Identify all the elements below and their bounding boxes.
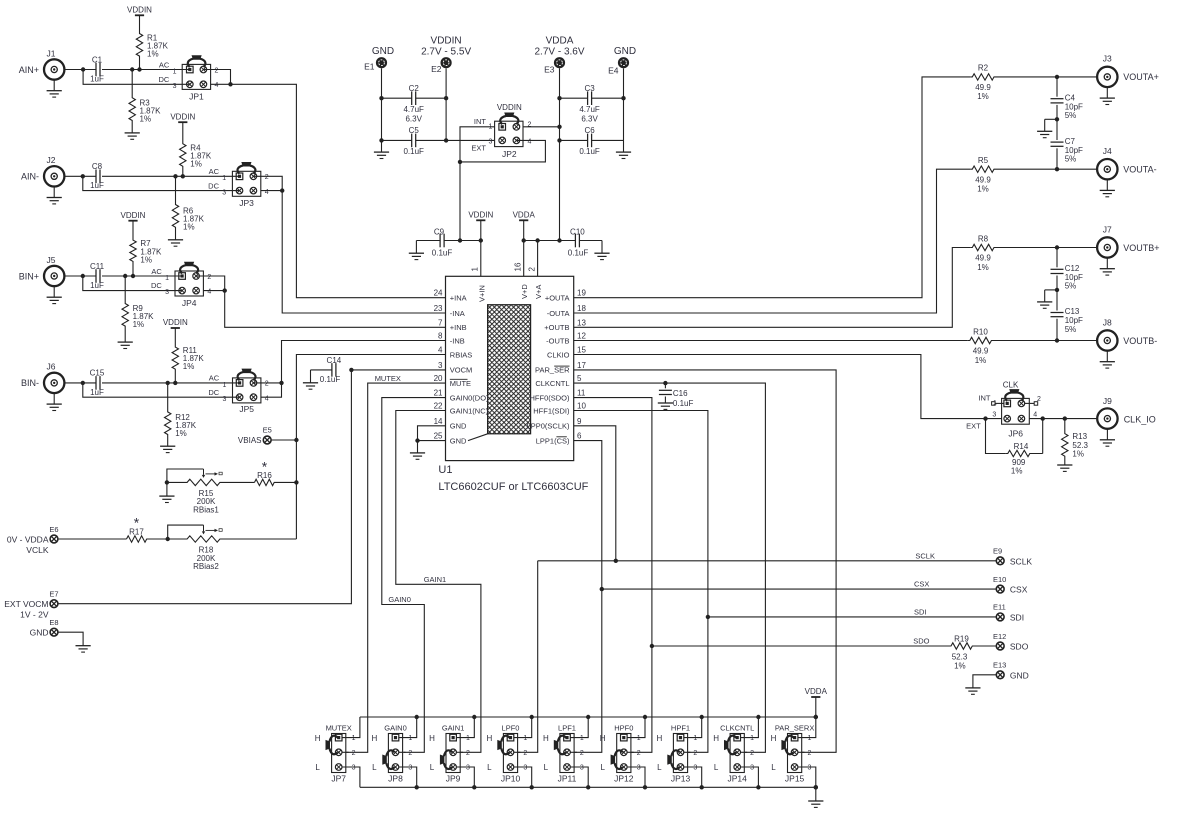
svg-text:2: 2 (215, 67, 219, 74)
svg-text:4.7uF: 4.7uF (403, 105, 424, 114)
jumper JP6 (1002, 398, 1030, 424)
ground (125, 132, 140, 134)
ground (1106, 429, 1108, 440)
svg-text:J6: J6 (47, 362, 56, 372)
svg-text:CLK: CLK (1003, 380, 1019, 389)
svg-text:C4: C4 (1065, 93, 1076, 102)
svg-text:L: L (487, 763, 492, 772)
svg-text:LPF0: LPF0 (502, 723, 520, 732)
svg-text:CSX: CSX (914, 580, 929, 589)
wire (225, 291, 446, 328)
svg-text:GND: GND (372, 46, 394, 57)
svg-text:3: 3 (222, 396, 226, 403)
jumper JP5 (233, 378, 261, 403)
svg-text:EXT: EXT (471, 143, 486, 152)
svg-text:2.7V - 5.5V: 2.7V - 5.5V (421, 47, 471, 58)
wire (1056, 319, 1058, 341)
capacitor C11 (95, 269, 97, 283)
svg-text:VDDA: VDDA (805, 687, 828, 696)
svg-text:1uF: 1uF (90, 281, 104, 290)
wire (518, 561, 538, 753)
wire (652, 645, 949, 647)
svg-text:14: 14 (434, 417, 443, 426)
junction (1055, 75, 1059, 79)
svg-text:1%: 1% (1072, 450, 1084, 459)
svg-text:GAIN1: GAIN1 (442, 723, 465, 732)
svg-text:E13: E13 (993, 661, 1006, 670)
svg-text:25: 25 (434, 432, 443, 441)
wire (416, 97, 446, 99)
wire (460, 127, 495, 241)
resistor R16 (255, 479, 297, 485)
wire RBIAS (296, 355, 445, 540)
wire VOCM (351, 369, 445, 371)
svg-text:2: 2 (265, 381, 269, 388)
terminal E6 VCLK (50, 535, 58, 543)
svg-text:1%: 1% (977, 92, 989, 101)
svg-text:+INB: +INB (450, 323, 467, 332)
svg-text:GAIN0: GAIN0 (384, 723, 407, 732)
junction (130, 67, 134, 71)
svg-text:L: L (430, 763, 435, 772)
wire SDI net (574, 411, 708, 753)
svg-text:2: 2 (408, 750, 412, 757)
ground (168, 239, 183, 241)
wire pin3 to L rail (399, 767, 417, 787)
svg-text:17: 17 (577, 361, 586, 370)
svg-text:JP8: JP8 (388, 774, 403, 784)
svg-text:E10: E10 (993, 575, 1006, 584)
resistor R17 (127, 536, 168, 542)
svg-text:E9: E9 (993, 547, 1002, 556)
svg-text:JP2: JP2 (502, 149, 517, 159)
svg-text:0.1uF: 0.1uF (673, 399, 694, 408)
resistor R8 49.9 (970, 244, 1097, 250)
wire (538, 560, 997, 562)
svg-text:SCLK: SCLK (1010, 556, 1033, 566)
wire +OUTB (574, 248, 971, 328)
svg-text:BIN+: BIN+ (19, 271, 39, 281)
wire (579, 240, 602, 242)
svg-text:C1: C1 (92, 55, 103, 64)
junction (586, 785, 590, 789)
svg-text:H: H (315, 734, 321, 743)
wire (83, 276, 182, 291)
resistor R9 1.87K (122, 276, 128, 342)
wire (1056, 105, 1058, 140)
svg-text:0V - VDDA: 0V - VDDA (7, 534, 49, 544)
resistor R7 1.87K (130, 221, 136, 276)
svg-text:R14: R14 (1014, 442, 1029, 451)
svg-text:19: 19 (577, 289, 586, 298)
svg-text:1: 1 (808, 735, 812, 742)
jumper JP7 MUTEX (332, 734, 346, 773)
wire (83, 70, 190, 85)
resistor R2 49.9 (970, 74, 1097, 80)
power VDDIN (171, 327, 180, 329)
svg-text:1: 1 (637, 735, 641, 742)
ground (616, 151, 631, 153)
svg-text:VCLK: VCLK (26, 545, 49, 555)
capacitor C5 0.1uF (411, 134, 413, 148)
junction (458, 238, 462, 242)
junction (663, 381, 667, 385)
resistor R18 200K RBias2 (168, 536, 297, 542)
ground (815, 787, 817, 801)
svg-text:0.1uF: 0.1uF (568, 249, 589, 258)
svg-text:LPP0(SCLK): LPP0(SCLK) (527, 422, 570, 431)
jumper JP3 (232, 171, 260, 196)
svg-text:4: 4 (265, 189, 269, 196)
svg-text:1: 1 (165, 275, 169, 282)
ground (310, 370, 312, 383)
svg-text:4: 4 (438, 346, 443, 355)
wire (64, 69, 96, 71)
junction (650, 644, 654, 648)
jumper JP2 (495, 121, 523, 146)
wire (1045, 289, 1057, 291)
svg-text:JP4: JP4 (182, 298, 197, 308)
svg-text:PAR_SER: PAR_SER (535, 366, 570, 375)
connector J5 BIN+ (44, 266, 64, 286)
svg-text:JP3: JP3 (239, 198, 254, 208)
wire (523, 220, 525, 276)
svg-text:3: 3 (693, 765, 697, 772)
ground (415, 241, 417, 254)
terminal E1 GND (376, 57, 387, 68)
resistor R13 52.3 (1062, 419, 1068, 465)
svg-text:1: 1 (222, 175, 226, 182)
capacitor C3 4.7uF (587, 91, 589, 105)
svg-text:CLKCNTL: CLKCNTL (720, 723, 754, 732)
ground (53, 286, 55, 297)
junction (621, 96, 625, 100)
svg-text:VDDA: VDDA (546, 36, 574, 47)
wire (592, 97, 624, 99)
wire (253, 176, 282, 190)
junction (349, 368, 353, 372)
junction (614, 559, 618, 563)
junction (814, 715, 818, 719)
junction (756, 715, 760, 719)
junction (643, 715, 647, 719)
junction (983, 416, 987, 420)
svg-text:J7: J7 (1103, 224, 1112, 234)
svg-text:1%: 1% (1011, 467, 1023, 476)
junction (557, 238, 561, 242)
svg-text:MUTEX: MUTEX (326, 723, 352, 732)
capacitor C6 0.1uF (587, 134, 589, 148)
svg-text:J1: J1 (47, 48, 56, 58)
svg-text:BIN-: BIN- (21, 378, 39, 388)
svg-text:E7: E7 (49, 590, 58, 599)
wire SCLK net (574, 426, 616, 561)
svg-text:U1: U1 (438, 464, 452, 476)
wire (537, 241, 539, 277)
wire exposed pad to GND (468, 434, 488, 441)
ground (1106, 258, 1108, 269)
svg-text:23: 23 (434, 304, 443, 313)
wire CSX net (574, 441, 602, 753)
terminal E10 CSX (996, 585, 1004, 593)
wire (444, 240, 481, 242)
svg-text:52.3: 52.3 (952, 652, 968, 661)
wire (64, 175, 96, 177)
ground (965, 687, 980, 689)
resistor R12 1.87K (165, 383, 171, 446)
svg-text:H: H (771, 734, 777, 743)
svg-text:7: 7 (438, 318, 443, 327)
junction (379, 96, 383, 100)
wire (282, 191, 445, 313)
junction (280, 188, 284, 192)
pad pin1 ext (995, 402, 1004, 404)
svg-text:AC: AC (159, 60, 170, 69)
ground (166, 482, 168, 496)
resistor R1 1.87K (136, 15, 142, 69)
connector J8 VOUTB- (1097, 330, 1117, 350)
wire (416, 240, 440, 242)
svg-text:JP12: JP12 (614, 774, 634, 784)
svg-text:2: 2 (265, 174, 269, 181)
svg-text:-OUTB: -OUTB (546, 336, 569, 345)
wire pin3 to L rail (571, 767, 589, 787)
terminal E7 EXT VOCM (50, 600, 58, 608)
ground (118, 341, 133, 343)
junction (166, 381, 170, 385)
junction (530, 715, 534, 719)
svg-text:AC: AC (209, 167, 220, 176)
junction (166, 537, 170, 541)
svg-text:LPF1: LPF1 (558, 723, 576, 732)
wire (708, 616, 996, 618)
svg-text:1: 1 (466, 735, 470, 742)
wire -OUTA (574, 169, 971, 313)
resistor R5 49.9 (970, 166, 1097, 172)
junction (137, 67, 141, 71)
wire pin1 to H rail (514, 717, 532, 738)
wire GND pin25 (418, 440, 446, 442)
svg-text:H: H (487, 734, 493, 743)
junction (81, 67, 85, 71)
svg-text:JP1: JP1 (189, 91, 204, 101)
wire (58, 632, 83, 646)
junction (1055, 245, 1059, 249)
svg-text:18: 18 (577, 304, 586, 313)
svg-text:0.1uF: 0.1uF (403, 147, 424, 156)
wire (973, 675, 996, 688)
svg-text:1%: 1% (140, 256, 152, 265)
wire SDO net (574, 398, 652, 753)
svg-text:2: 2 (207, 274, 211, 281)
power VDDIN (178, 121, 187, 123)
svg-text:3: 3 (808, 765, 812, 772)
svg-text:4: 4 (207, 289, 211, 296)
svg-text:H: H (657, 734, 663, 743)
junction (1055, 117, 1059, 121)
svg-text:16: 16 (514, 262, 523, 271)
svg-text:3: 3 (408, 765, 412, 772)
svg-text:4: 4 (215, 82, 219, 89)
svg-text:2.7V - 3.6V: 2.7V - 3.6V (534, 47, 584, 58)
svg-text:HPF0: HPF0 (614, 723, 633, 732)
svg-text:49.9: 49.9 (973, 347, 989, 356)
wire (102, 175, 240, 177)
junction (294, 438, 298, 442)
svg-text:1%: 1% (977, 185, 989, 194)
svg-text:J4: J4 (1103, 146, 1112, 156)
svg-text:L: L (600, 763, 605, 772)
svg-text:1uF: 1uF (90, 388, 104, 397)
wire pin3 to L rail (798, 767, 816, 787)
jumper JP15 PAR_SERX (788, 734, 802, 773)
svg-text:24: 24 (434, 289, 443, 298)
svg-text:C6: C6 (584, 126, 595, 135)
svg-text:1%: 1% (147, 50, 159, 59)
svg-text:JP15: JP15 (785, 774, 805, 784)
wire pin3 to L rail (457, 767, 475, 787)
junction (228, 82, 232, 86)
connector J6 BIN- (44, 373, 64, 393)
svg-text:J3: J3 (1103, 54, 1112, 64)
wire (592, 139, 624, 141)
svg-text:CLK_IO: CLK_IO (1124, 414, 1156, 424)
capacitor C8 (95, 170, 97, 184)
junction (415, 715, 419, 719)
svg-text:C5: C5 (409, 126, 420, 135)
resistor R10 49.9 (968, 337, 1097, 343)
svg-text:L: L (315, 763, 320, 772)
svg-text:JP10: JP10 (501, 774, 521, 784)
svg-text:AC: AC (209, 374, 220, 383)
junction (557, 125, 561, 129)
svg-text:-INB: -INB (450, 336, 465, 345)
wire pin2 stub (741, 751, 747, 753)
junction (131, 274, 135, 278)
junction (479, 238, 483, 242)
wire (83, 176, 240, 190)
svg-text:1: 1 (173, 68, 177, 75)
junction (123, 274, 127, 278)
capacitor C14 0.1uF (331, 363, 333, 377)
wire (480, 220, 482, 276)
svg-text:VOUTB-: VOUTB- (1123, 336, 1157, 346)
wire (261, 383, 282, 397)
svg-text:1: 1 (580, 735, 584, 742)
svg-text:VDDIN: VDDIN (121, 211, 146, 220)
wire (524, 240, 576, 242)
svg-text:RBIAS: RBIAS (450, 350, 473, 359)
jumper JP9 GAIN1 (446, 734, 460, 773)
wire (382, 97, 412, 99)
wire pin1 to H rail (571, 717, 589, 738)
svg-text:AIN+: AIN+ (19, 65, 39, 75)
svg-text:1: 1 (523, 735, 527, 742)
svg-text:GND: GND (1010, 670, 1029, 680)
svg-text:4: 4 (528, 138, 532, 145)
svg-text:3: 3 (992, 412, 996, 419)
svg-text:GAIN0(DO): GAIN0(DO) (450, 393, 489, 402)
wire (282, 341, 446, 383)
svg-text:DC: DC (151, 281, 162, 290)
svg-text:VOUTB+: VOUTB+ (1123, 243, 1159, 253)
wire (560, 139, 588, 141)
ground (1106, 351, 1108, 362)
svg-text:L: L (544, 763, 549, 772)
svg-text:DC: DC (158, 75, 169, 84)
wire (58, 370, 352, 604)
svg-text:HFF1(SDI): HFF1(SDI) (533, 406, 570, 415)
wire CLKIO (574, 355, 1002, 419)
svg-text:JP7: JP7 (331, 774, 346, 784)
wire (1029, 418, 1097, 420)
wire (382, 139, 412, 141)
svg-text:R8: R8 (978, 234, 989, 243)
svg-text:C3: C3 (584, 84, 595, 93)
wire (102, 275, 182, 277)
junction (557, 96, 561, 100)
svg-text:R13: R13 (1072, 432, 1087, 441)
svg-text:JP13: JP13 (671, 774, 691, 784)
svg-text:GND: GND (30, 628, 49, 638)
svg-text:SDO: SDO (1010, 642, 1029, 652)
svg-text:9: 9 (577, 417, 582, 426)
wire +OUTA (574, 77, 971, 298)
terminal E5 VBIAS (263, 436, 271, 444)
svg-text:GND: GND (450, 436, 467, 445)
svg-text:6.3V: 6.3V (405, 115, 422, 124)
svg-text:6.3V: 6.3V (581, 115, 598, 124)
svg-text:3: 3 (580, 765, 584, 772)
wire pin3 to L rail (514, 767, 532, 787)
svg-text:5: 5 (577, 374, 582, 383)
wire pin3 to L rail (741, 767, 759, 787)
ground (53, 393, 55, 404)
svg-text:CSX: CSX (1010, 585, 1028, 595)
svg-text:*: * (262, 459, 268, 475)
junction (81, 274, 85, 278)
junction (530, 785, 534, 789)
junction (294, 480, 298, 484)
svg-text:CLKIO: CLKIO (547, 350, 570, 359)
wire PAR_SER net (574, 370, 836, 752)
junction (173, 381, 177, 385)
svg-text:LTC6602CUF or LTC6603CUF: LTC6602CUF or LTC6603CUF (438, 481, 588, 493)
svg-text:VOUTA+: VOUTA+ (1123, 72, 1159, 82)
wire (1056, 148, 1058, 169)
junction (444, 138, 448, 142)
svg-text:+INA: +INA (450, 294, 467, 303)
svg-text:L: L (657, 763, 662, 772)
junction (415, 785, 419, 789)
capacitor C7 10pF (1051, 141, 1064, 143)
svg-text:1: 1 (408, 735, 412, 742)
svg-text:JP5: JP5 (239, 404, 254, 414)
svg-text:1%: 1% (175, 429, 187, 438)
ground (1037, 130, 1052, 132)
svg-text:+OUTB: +OUTB (544, 323, 569, 332)
junction (586, 715, 590, 719)
svg-text:1%: 1% (133, 320, 145, 329)
junction (279, 381, 283, 385)
terminal E2 VDDIN (441, 57, 452, 68)
terminal E12 SDO (996, 642, 1004, 650)
svg-text:1V - 2V: 1V - 2V (20, 610, 49, 620)
junction (700, 785, 704, 789)
wire (523, 126, 560, 128)
wire pin2 stub (399, 751, 405, 753)
jumper JP14 CLKCNTL (730, 734, 744, 773)
